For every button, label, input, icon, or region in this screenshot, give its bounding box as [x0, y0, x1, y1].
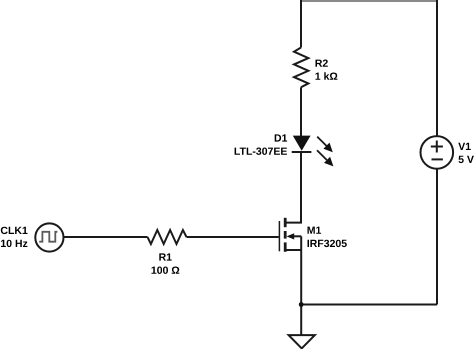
source tie wire — [287, 249, 302, 251]
label R2 value 1 kOhm — [316, 72, 338, 80]
label D1 name — [275, 134, 287, 141]
label R2 name — [316, 60, 328, 67]
label V1 name — [458, 143, 471, 150]
channel bar drain — [284, 218, 287, 227]
wire top rail — [301, 0, 437, 2]
wire R2 to D1 — [300, 87, 302, 136]
wire bottom rail — [301, 304, 437, 306]
label R1 value 100 ohm — [152, 267, 180, 274]
voltage source V1 — [421, 136, 454, 169]
label CLK1 value 10 Hz — [1, 240, 27, 247]
label CLK1 name — [1, 227, 28, 234]
wire D1 to M1 drain — [287, 152, 302, 223]
channel bar body — [284, 231, 287, 239]
wire M1 source down to junction — [300, 236, 302, 304]
wire CLK1 to R1 — [64, 236, 148, 238]
resistor R2 — [294, 48, 308, 88]
wire gate lead — [187, 236, 279, 238]
transistor M1 — [279, 218, 301, 252]
LED D1 emission arrow 2 — [317, 150, 333, 166]
wire R2 top lead — [300, 0, 302, 48]
wire V1 bottom lead — [436, 169, 438, 305]
label D1 value LTL-307EE — [235, 148, 287, 155]
label V1 value 5 V — [459, 156, 474, 163]
label M1 name — [308, 227, 322, 234]
body arrow — [287, 233, 295, 239]
wire V1 top lead — [436, 0, 438, 136]
junction node — [299, 302, 304, 307]
LED D1 — [292, 136, 312, 152]
resistor R1 — [148, 230, 187, 244]
clock source CLK1 — [35, 223, 63, 251]
label R1 name — [159, 253, 171, 260]
LED D1 emission arrow 1 — [317, 137, 333, 153]
wire junction to ground — [300, 305, 302, 336]
gate bar — [278, 221, 280, 251]
ground — [289, 335, 315, 348]
label M1 value IRF3205 — [308, 240, 347, 247]
channel bar source — [284, 242, 287, 251]
body tie wire — [293, 235, 301, 237]
